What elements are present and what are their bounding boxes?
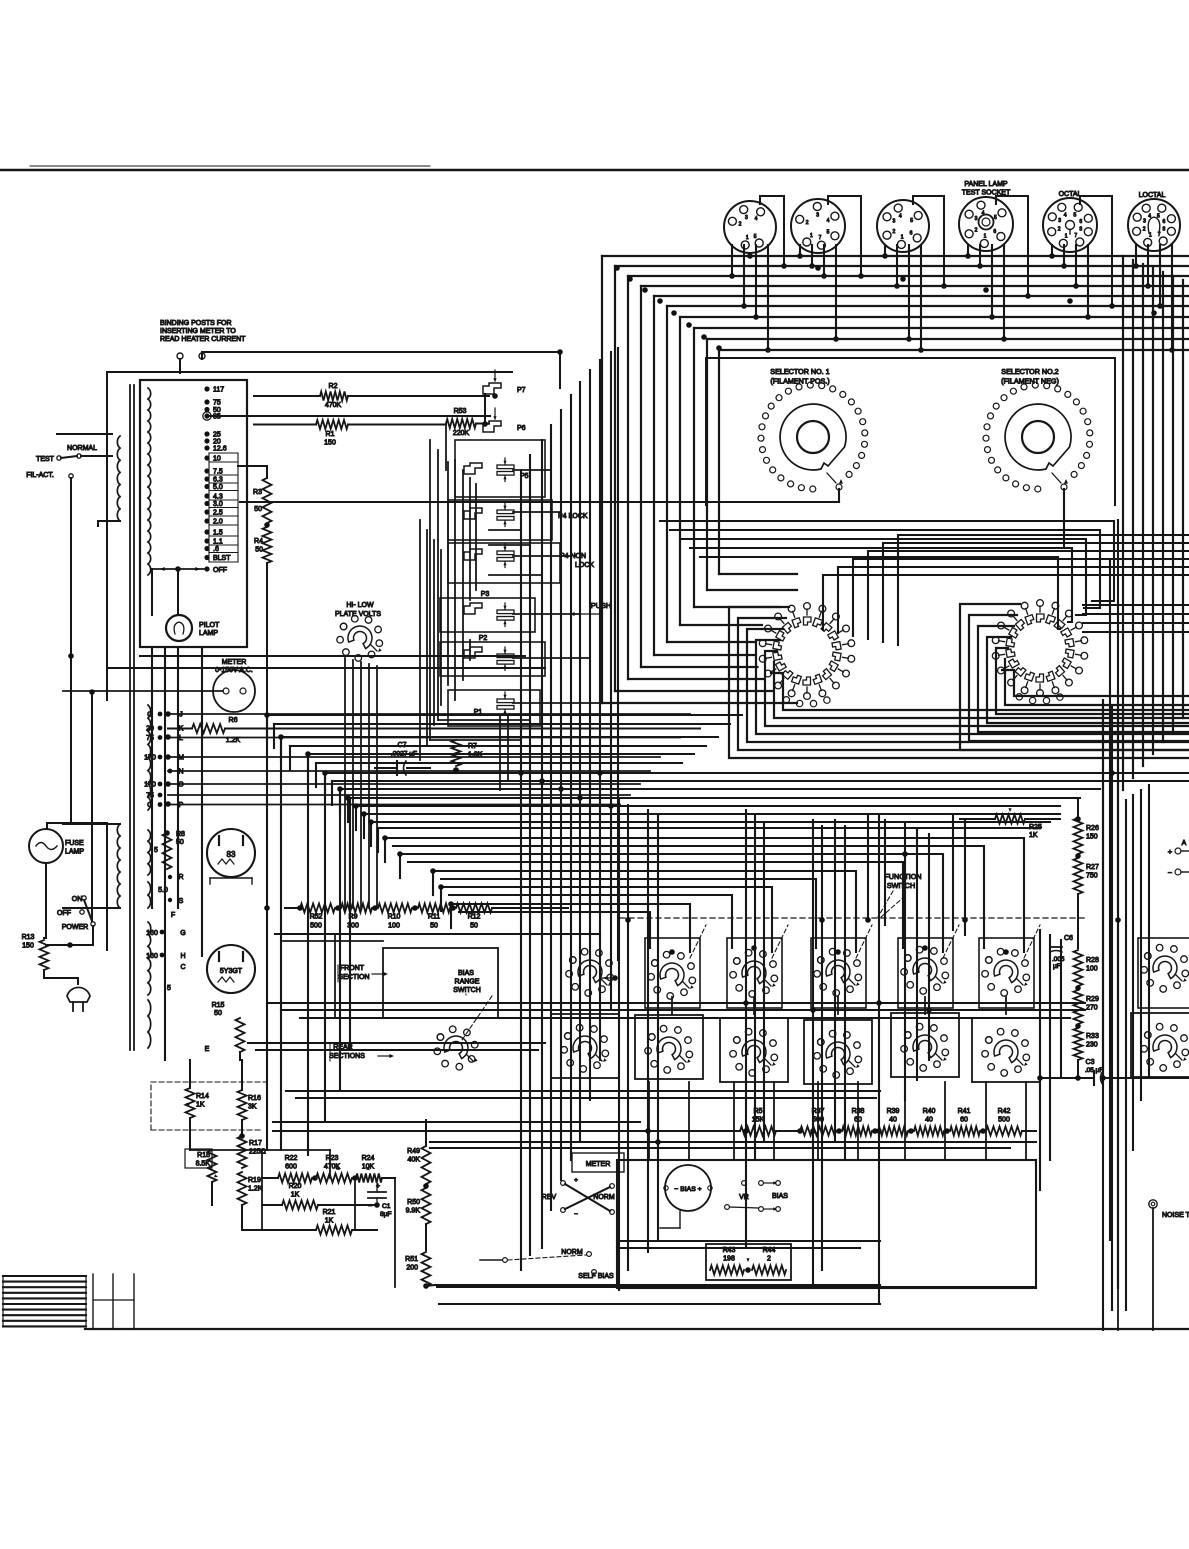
- selector no.1 pointer wire: [240, 479, 843, 502]
- svg-text:5: 5: [910, 218, 913, 224]
- power switch: [46, 896, 95, 948]
- svg-text:F: F: [171, 912, 175, 919]
- selector no.1 label: [770, 367, 829, 386]
- hatch block leads: [93, 1274, 134, 1329]
- svg-text:3: 3: [1058, 218, 1061, 224]
- svg-text:117: 117: [213, 387, 224, 394]
- loctal socket XS6: [1128, 199, 1180, 251]
- svg-text:BINDING POSTS FOR: BINDING POSTS FOR: [160, 320, 232, 327]
- hi-low plate volts switch: [337, 615, 383, 661]
- bottom-left wiring: [190, 1150, 1036, 1304]
- svg-text:L: L: [179, 735, 183, 742]
- pushbutton P2: [464, 635, 514, 671]
- svg-text:50: 50: [254, 506, 262, 513]
- resistor R28 100: [1074, 950, 1099, 991]
- svg-text:R12: R12: [468, 914, 481, 921]
- front section label: [338, 965, 388, 982]
- rear sections horizontals: [248, 1043, 880, 1122]
- pushbutton column wiring: [420, 424, 600, 790]
- resistor R20 1K: [262, 1183, 380, 1210]
- svg-text:5: 5: [994, 215, 997, 221]
- resistor R19 1.2K: [238, 1172, 263, 1230]
- svg-text:C1: C1: [382, 1203, 391, 1210]
- svg-text:1K: 1K: [291, 1192, 300, 1199]
- svg-text:50: 50: [214, 1010, 222, 1017]
- resistor R6 1.2K: [168, 717, 700, 744]
- transformer box: [140, 380, 247, 647]
- svg-text:VR: VR: [739, 1194, 749, 1201]
- lower region verticals: [619, 700, 1118, 1330]
- svg-text:R41: R41: [958, 1108, 971, 1115]
- wafer W2 left feeders: [660, 521, 1114, 629]
- resistor R22 600: [262, 1155, 318, 1183]
- binding posts: [177, 352, 560, 388]
- resistor R29 270: [1074, 990, 1099, 1029]
- svg-text:7: 7: [1074, 233, 1077, 239]
- svg-text:METER: METER: [586, 1161, 611, 1168]
- svg-text:N: N: [178, 769, 183, 776]
- svg-text:150: 150: [1086, 834, 1098, 841]
- wire junction dots: [165, 253, 1157, 1145]
- svg-text:+: +: [1168, 847, 1173, 856]
- svg-text:8: 8: [1079, 227, 1082, 233]
- loctal socket label: [1139, 192, 1166, 199]
- pushbutton P6: [483, 408, 526, 432]
- octal socket label: [1059, 191, 1082, 198]
- push arrow: [570, 601, 611, 616]
- svg-text:3: 3: [893, 219, 896, 225]
- svg-text:1K: 1K: [196, 1102, 205, 1109]
- svg-text:R42: R42: [998, 1108, 1011, 1115]
- svg-text:R15: R15: [212, 1002, 225, 1009]
- power feed vertical: [89, 689, 95, 921]
- hi-low switch drop wires: [345, 658, 377, 908]
- svg-text:1K: 1K: [325, 1218, 334, 1225]
- svg-text:5: 5: [154, 847, 158, 854]
- svg-text:.005: .005: [1052, 956, 1065, 963]
- svg-text:TEST: TEST: [36, 456, 55, 463]
- r-network verticals: [262, 1150, 395, 1287]
- resistor R7 1.8K: [452, 740, 483, 773]
- svg-text:5: 5: [754, 234, 757, 240]
- svg-text:PANEL LAMP: PANEL LAMP: [964, 181, 1008, 188]
- octal socket XS5: [1043, 198, 1097, 252]
- svg-text:5: 5: [827, 230, 830, 236]
- svg-text:R24: R24: [362, 1155, 375, 1162]
- front section enclosure: [275, 934, 600, 1018]
- inter-row horizontals: [267, 1003, 1085, 1018]
- svg-text:R50: R50: [407, 1199, 420, 1206]
- resistor R51 200: [405, 1252, 430, 1289]
- svg-text:6: 6: [993, 229, 996, 235]
- svg-text:3: 3: [1143, 218, 1146, 224]
- hi-low plate volts label: [335, 602, 381, 618]
- svg-text:3: 3: [745, 215, 748, 221]
- svg-text:15K: 15K: [752, 1117, 765, 1124]
- coil 5V section: [148, 830, 158, 875]
- svg-text:FRONT: FRONT: [340, 965, 365, 972]
- svg-text:P6: P6: [517, 425, 526, 432]
- pushbutton P4 non lock: [464, 544, 594, 569]
- svg-text:9.9K: 9.9K: [406, 1208, 421, 1215]
- transformer secondary winding upper: [148, 388, 151, 575]
- resistor R15 50: [212, 1002, 245, 1060]
- svg-text:R29: R29: [1086, 996, 1099, 1003]
- svg-text:SECTION: SECTION: [338, 974, 369, 981]
- svg-text:160: 160: [146, 930, 158, 937]
- normal/test/fil-act switch: [26, 434, 112, 823]
- svg-text:600: 600: [285, 1164, 297, 1171]
- svg-text:R16: R16: [248, 1095, 261, 1102]
- svg-text:1: 1: [901, 234, 904, 240]
- svg-text:R25: R25: [1029, 824, 1042, 831]
- svg-text:SWITCH: SWITCH: [887, 881, 915, 890]
- left area verticals: [152, 648, 350, 1155]
- svg-text:8μF: 8μF: [380, 1211, 392, 1218]
- svg-text:R38: R38: [852, 1108, 865, 1115]
- pilot lamp: [166, 615, 220, 641]
- pushbutton P1: [474, 692, 514, 716]
- transformer primary winding lower: [63, 824, 120, 908]
- inter-socket loop wires: [760, 196, 1115, 309]
- svg-text:μF: μF: [1053, 963, 1061, 970]
- svg-text:R13: R13: [22, 934, 35, 941]
- svg-text:P2: P2: [479, 635, 488, 642]
- selector enclosure box: [706, 358, 1115, 505]
- transformer voltage taps: [204, 386, 238, 562]
- svg-text:160: 160: [146, 953, 158, 960]
- svg-text:+: +: [574, 1177, 578, 1184]
- horizontal weave band: [267, 715, 1189, 852]
- svg-text:BIAS: BIAS: [772, 1193, 788, 1200]
- svg-text:P7: P7: [517, 387, 526, 394]
- resistor R27 750: [1074, 858, 1099, 948]
- svg-text:SELECTOR NO. 1: SELECTOR NO. 1: [770, 367, 829, 376]
- selector no.1 dial: [758, 382, 868, 492]
- svg-text:270: 270: [1086, 1005, 1098, 1012]
- tap 35 wire: [203, 412, 490, 420]
- svg-text:O: O: [178, 782, 184, 789]
- svg-text:2: 2: [975, 228, 978, 234]
- bias meter: [660, 1165, 712, 1228]
- svg-text:6: 6: [1079, 219, 1082, 225]
- norm/self-bias switch: [480, 1249, 614, 1280]
- svg-text:R52: R52: [310, 914, 323, 921]
- meter M1: [63, 670, 255, 712]
- resistor R21 1K: [262, 1209, 377, 1235]
- resistor R53 220K: [446, 408, 489, 437]
- svg-text:P3: P3: [481, 591, 490, 598]
- svg-text:OFF: OFF: [213, 567, 227, 574]
- svg-text:2: 2: [893, 229, 896, 235]
- meter label box: [572, 1153, 624, 1172]
- svg-text:40: 40: [889, 1117, 897, 1124]
- resistor R25 1K: [960, 808, 1060, 839]
- svg-text:500: 500: [812, 1117, 824, 1124]
- svg-text:(FILAMENT NEG): (FILAMENT NEG): [1001, 377, 1059, 386]
- coil 5 section lower: [148, 985, 171, 1048]
- svg-text:4: 4: [899, 214, 902, 220]
- svg-text:METER: METER: [222, 659, 247, 666]
- rotary row drop wires: [649, 997, 1026, 1160]
- svg-text:60: 60: [854, 1117, 862, 1124]
- svg-text:1: 1: [810, 233, 813, 239]
- svg-text:1: 1: [1065, 234, 1068, 240]
- svg-text:1: 1: [984, 233, 987, 239]
- svg-text:R53: R53: [454, 408, 467, 415]
- svg-text:R5: R5: [754, 1108, 763, 1115]
- svg-text:1.2K: 1.2K: [226, 737, 241, 744]
- pushbutton P4 lock: [464, 503, 588, 527]
- pushbutton P5: [464, 458, 529, 482]
- svg-text:50: 50: [255, 547, 263, 554]
- svg-text:R4: R4: [254, 538, 263, 545]
- svg-text:470K: 470K: [325, 402, 342, 409]
- svg-text:SWITCH: SWITCH: [453, 987, 481, 994]
- svg-text:8.5K: 8.5K: [196, 1161, 211, 1168]
- svg-text:6: 6: [1163, 219, 1166, 225]
- function switch front wafers row: [566, 938, 1189, 1008]
- tube V2 5Y3GT: [207, 945, 255, 993]
- panel lamp test socket XS4: [959, 197, 1013, 251]
- svg-text:4: 4: [1064, 212, 1067, 218]
- resistor R1 150: [254, 420, 446, 447]
- noise test terminal: [1118, 1200, 1189, 1330]
- fuse lamp: [29, 823, 107, 950]
- svg-text:R40: R40: [923, 1108, 936, 1115]
- svg-text:−: −: [574, 1211, 578, 1218]
- tube V1 83: [207, 829, 255, 884]
- svg-text:R37: R37: [812, 1108, 825, 1115]
- svg-text:40K: 40K: [408, 1157, 421, 1164]
- svg-text:NORMAL: NORMAL: [67, 445, 97, 452]
- vr/bias selector: [725, 1181, 789, 1212]
- svg-text:40: 40: [925, 1117, 933, 1124]
- wafer W2 surrounding bundle: [960, 604, 1189, 750]
- rear sections label: [329, 1044, 394, 1061]
- capacitor C1 8uF: [368, 1182, 392, 1218]
- svg-text:R18: R18: [197, 1152, 210, 1159]
- svg-text:J: J: [179, 712, 183, 719]
- svg-text:150: 150: [22, 943, 34, 950]
- svg-text:5Y3GT: 5Y3GT: [220, 968, 243, 975]
- svg-text:1K: 1K: [1029, 832, 1038, 839]
- svg-text:C6: C6: [1064, 935, 1073, 942]
- meter terminals right: [1168, 840, 1189, 877]
- pushbutton P7: [483, 370, 526, 424]
- function switch rear wafers row: [551, 1013, 1189, 1084]
- svg-text:200: 200: [406, 1265, 418, 1272]
- front wafer feed wires: [385, 838, 1024, 952]
- svg-text:A: A: [1182, 840, 1187, 847]
- svg-text:R23: R23: [326, 1155, 339, 1162]
- svg-text:50: 50: [470, 923, 478, 930]
- svg-text:R39: R39: [887, 1108, 900, 1115]
- svg-text:5: 5: [167, 985, 171, 992]
- svg-text:2: 2: [806, 220, 809, 226]
- transformer core: [130, 385, 134, 1050]
- resistor R24 10K: [356, 1155, 395, 1183]
- selector no.2 dial: [983, 382, 1093, 492]
- resistor R3 50: [238, 466, 272, 528]
- svg-text:83: 83: [227, 850, 236, 859]
- svg-text:8: 8: [1163, 226, 1166, 232]
- svg-text:R27: R27: [1086, 864, 1099, 871]
- transformer primary winding upper: [98, 436, 120, 526]
- svg-text:100: 100: [388, 923, 400, 930]
- wafer switch W2: [992, 600, 1087, 704]
- svg-text:OCTAL: OCTAL: [1059, 191, 1082, 198]
- svg-text:R6: R6: [229, 717, 238, 724]
- svg-text:LOCK: LOCK: [575, 562, 594, 569]
- svg-text:R3: R3: [253, 489, 262, 496]
- svg-text:75: 75: [213, 400, 221, 407]
- mid vertical wire bundle: [521, 348, 618, 1270]
- bus bundle left verticals: [602, 256, 797, 703]
- capacitor C3 .05uF: [1040, 1059, 1189, 1085]
- svg-text:750: 750: [1086, 873, 1098, 880]
- svg-text:R1: R1: [326, 431, 335, 438]
- svg-text:POWER: POWER: [62, 924, 88, 931]
- svg-text:SELECTOR NO.2: SELECTOR NO.2: [1001, 367, 1058, 376]
- svg-text:20: 20: [213, 439, 221, 446]
- svg-text:− BIAS +: − BIAS +: [674, 1186, 701, 1193]
- pushbutton P3: [464, 591, 514, 627]
- wafer switch W1: [759, 603, 854, 707]
- svg-text:50: 50: [430, 923, 438, 930]
- svg-text:OFF: OFF: [57, 910, 71, 917]
- resistor R50 9.9K: [406, 1183, 431, 1250]
- resistor R16 3K: [238, 1060, 261, 1136]
- svg-text:LAMP: LAMP: [199, 630, 218, 637]
- resistor R17 225: [238, 1133, 266, 1168]
- socket wiring drops: [729, 245, 1175, 353]
- svg-text:R28: R28: [1086, 957, 1099, 964]
- svg-text:5.0: 5.0: [158, 887, 168, 894]
- svg-text:300: 300: [347, 923, 359, 930]
- svg-text:R49: R49: [407, 1148, 420, 1155]
- bias cluster box: [617, 1160, 1036, 1288]
- tube socket XS1 (5-pin): [724, 201, 776, 253]
- resistor R43 198 / R44 2: [706, 1244, 791, 1280]
- resistor chain R5 R37-R42: [273, 1108, 1036, 1136]
- svg-text:2: 2: [767, 1256, 771, 1263]
- svg-text:500: 500: [998, 1117, 1010, 1124]
- binding posts label: [160, 320, 246, 343]
- resistor R18 8.5K: [185, 1149, 218, 1205]
- wafer W2 right connections: [1083, 605, 1189, 632]
- resistor R14 1K: [186, 1060, 209, 1150]
- svg-text:H: H: [180, 953, 185, 960]
- svg-text:100: 100: [1086, 966, 1098, 973]
- selector no.2 pointer wire: [1064, 479, 1068, 546]
- svg-text:5: 5: [1074, 212, 1077, 218]
- svg-text:4: 4: [755, 216, 758, 222]
- svg-text:R14: R14: [196, 1093, 209, 1100]
- outer wiring frame: [107, 372, 512, 700]
- resistor R26 150: [1074, 800, 1099, 859]
- tube socket XS3 (7-pin): [877, 200, 929, 252]
- tap R: [168, 874, 184, 881]
- bottom long wires: [430, 1142, 1036, 1248]
- svg-text:NOISE T: NOISE T: [1162, 1212, 1189, 1219]
- svg-text:ON: ON: [72, 896, 83, 903]
- svg-text:−: −: [1168, 868, 1173, 877]
- svg-text:1.2K: 1.2K: [248, 1186, 263, 1193]
- capacitor C6 .005uF: [1050, 935, 1073, 970]
- svg-text:RANGE: RANGE: [455, 979, 480, 986]
- resistor R49 40K: [407, 1120, 430, 1184]
- resistor R13 150: [22, 934, 78, 978]
- svg-text:198: 198: [723, 1256, 735, 1263]
- wafer W1 surrounding bundle: [729, 607, 1189, 758]
- svg-text:2: 2: [1058, 227, 1061, 233]
- svg-text:LOCTAL: LOCTAL: [1139, 192, 1166, 199]
- svg-text:R19: R19: [248, 1177, 261, 1184]
- rev/norm switch: [542, 1177, 615, 1218]
- resistor R23 470K: [316, 1155, 358, 1183]
- svg-text:HI- LOW: HI- LOW: [346, 602, 374, 609]
- resistor R2 470K: [254, 383, 489, 409]
- svg-text:R22: R22: [285, 1155, 298, 1162]
- svg-text:12.6: 12.6: [213, 446, 227, 453]
- svg-text:INSERTING METER TO: INSERTING METER TO: [160, 328, 236, 335]
- svg-text:S: S: [179, 898, 184, 905]
- tap F: [171, 912, 175, 919]
- svg-text:6: 6: [910, 231, 913, 237]
- svg-text:R33: R33: [1086, 1033, 1099, 1040]
- resistor R33 230: [1074, 1028, 1099, 1078]
- bottom border rule: [85, 1328, 1189, 1330]
- function switch dashed linkage: [620, 896, 1085, 958]
- svg-text:BIAS: BIAS: [458, 970, 474, 977]
- wafer W1 right feeders: [823, 535, 1189, 645]
- svg-text:2: 2: [1143, 226, 1146, 232]
- bias range switch rotary: [434, 1026, 478, 1070]
- capacitor C7 .0027uF: [375, 742, 430, 775]
- tap E: [205, 1046, 210, 1053]
- svg-text:R2: R2: [329, 383, 338, 390]
- svg-text:FUSE: FUSE: [65, 840, 84, 847]
- svg-text:C: C: [180, 964, 185, 971]
- selector no.2 label: [1001, 367, 1059, 386]
- off tap: [152, 566, 227, 615]
- svg-text:P: P: [179, 802, 184, 809]
- left horizontals: [107, 656, 545, 668]
- svg-text:NORM: NORM: [593, 1194, 615, 1201]
- top border rule: [0, 166, 1189, 170]
- tube socket XS2 (6-pin): [791, 199, 845, 253]
- coil 5.0 section: [148, 882, 184, 908]
- svg-text:R: R: [178, 874, 183, 881]
- svg-text:LAMP: LAMP: [65, 849, 84, 856]
- svg-text:1: 1: [746, 235, 749, 241]
- meter 0-150V label: [215, 659, 253, 674]
- resistor row R52 R9 R10 R11 R12: [285, 904, 568, 930]
- svg-text:R11: R11: [428, 914, 440, 921]
- bus bundle horizontals: [602, 256, 1189, 350]
- svg-text:R20: R20: [289, 1183, 302, 1190]
- svg-text:REV: REV: [542, 1194, 557, 1201]
- right edge vertical bundle: [1103, 256, 1183, 1310]
- svg-text:R21: R21: [323, 1209, 336, 1216]
- bias range switch label: [453, 970, 492, 1040]
- dashed ganged box: [151, 1082, 267, 1130]
- svg-text:3K: 3K: [248, 1104, 257, 1111]
- terminal strip hatch block: [3, 1276, 86, 1326]
- svg-text:230: 230: [1086, 1042, 1098, 1049]
- pushbutton group boxes: [440, 440, 560, 726]
